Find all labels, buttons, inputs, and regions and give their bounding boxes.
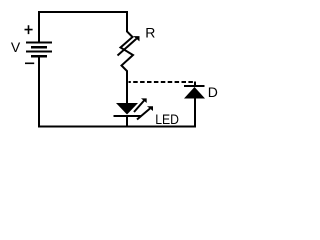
svg-text:V: V [11,39,21,55]
svg-text:LED: LED [155,111,179,127]
svg-text:D: D [208,84,218,100]
svg-text:R: R [145,25,155,41]
